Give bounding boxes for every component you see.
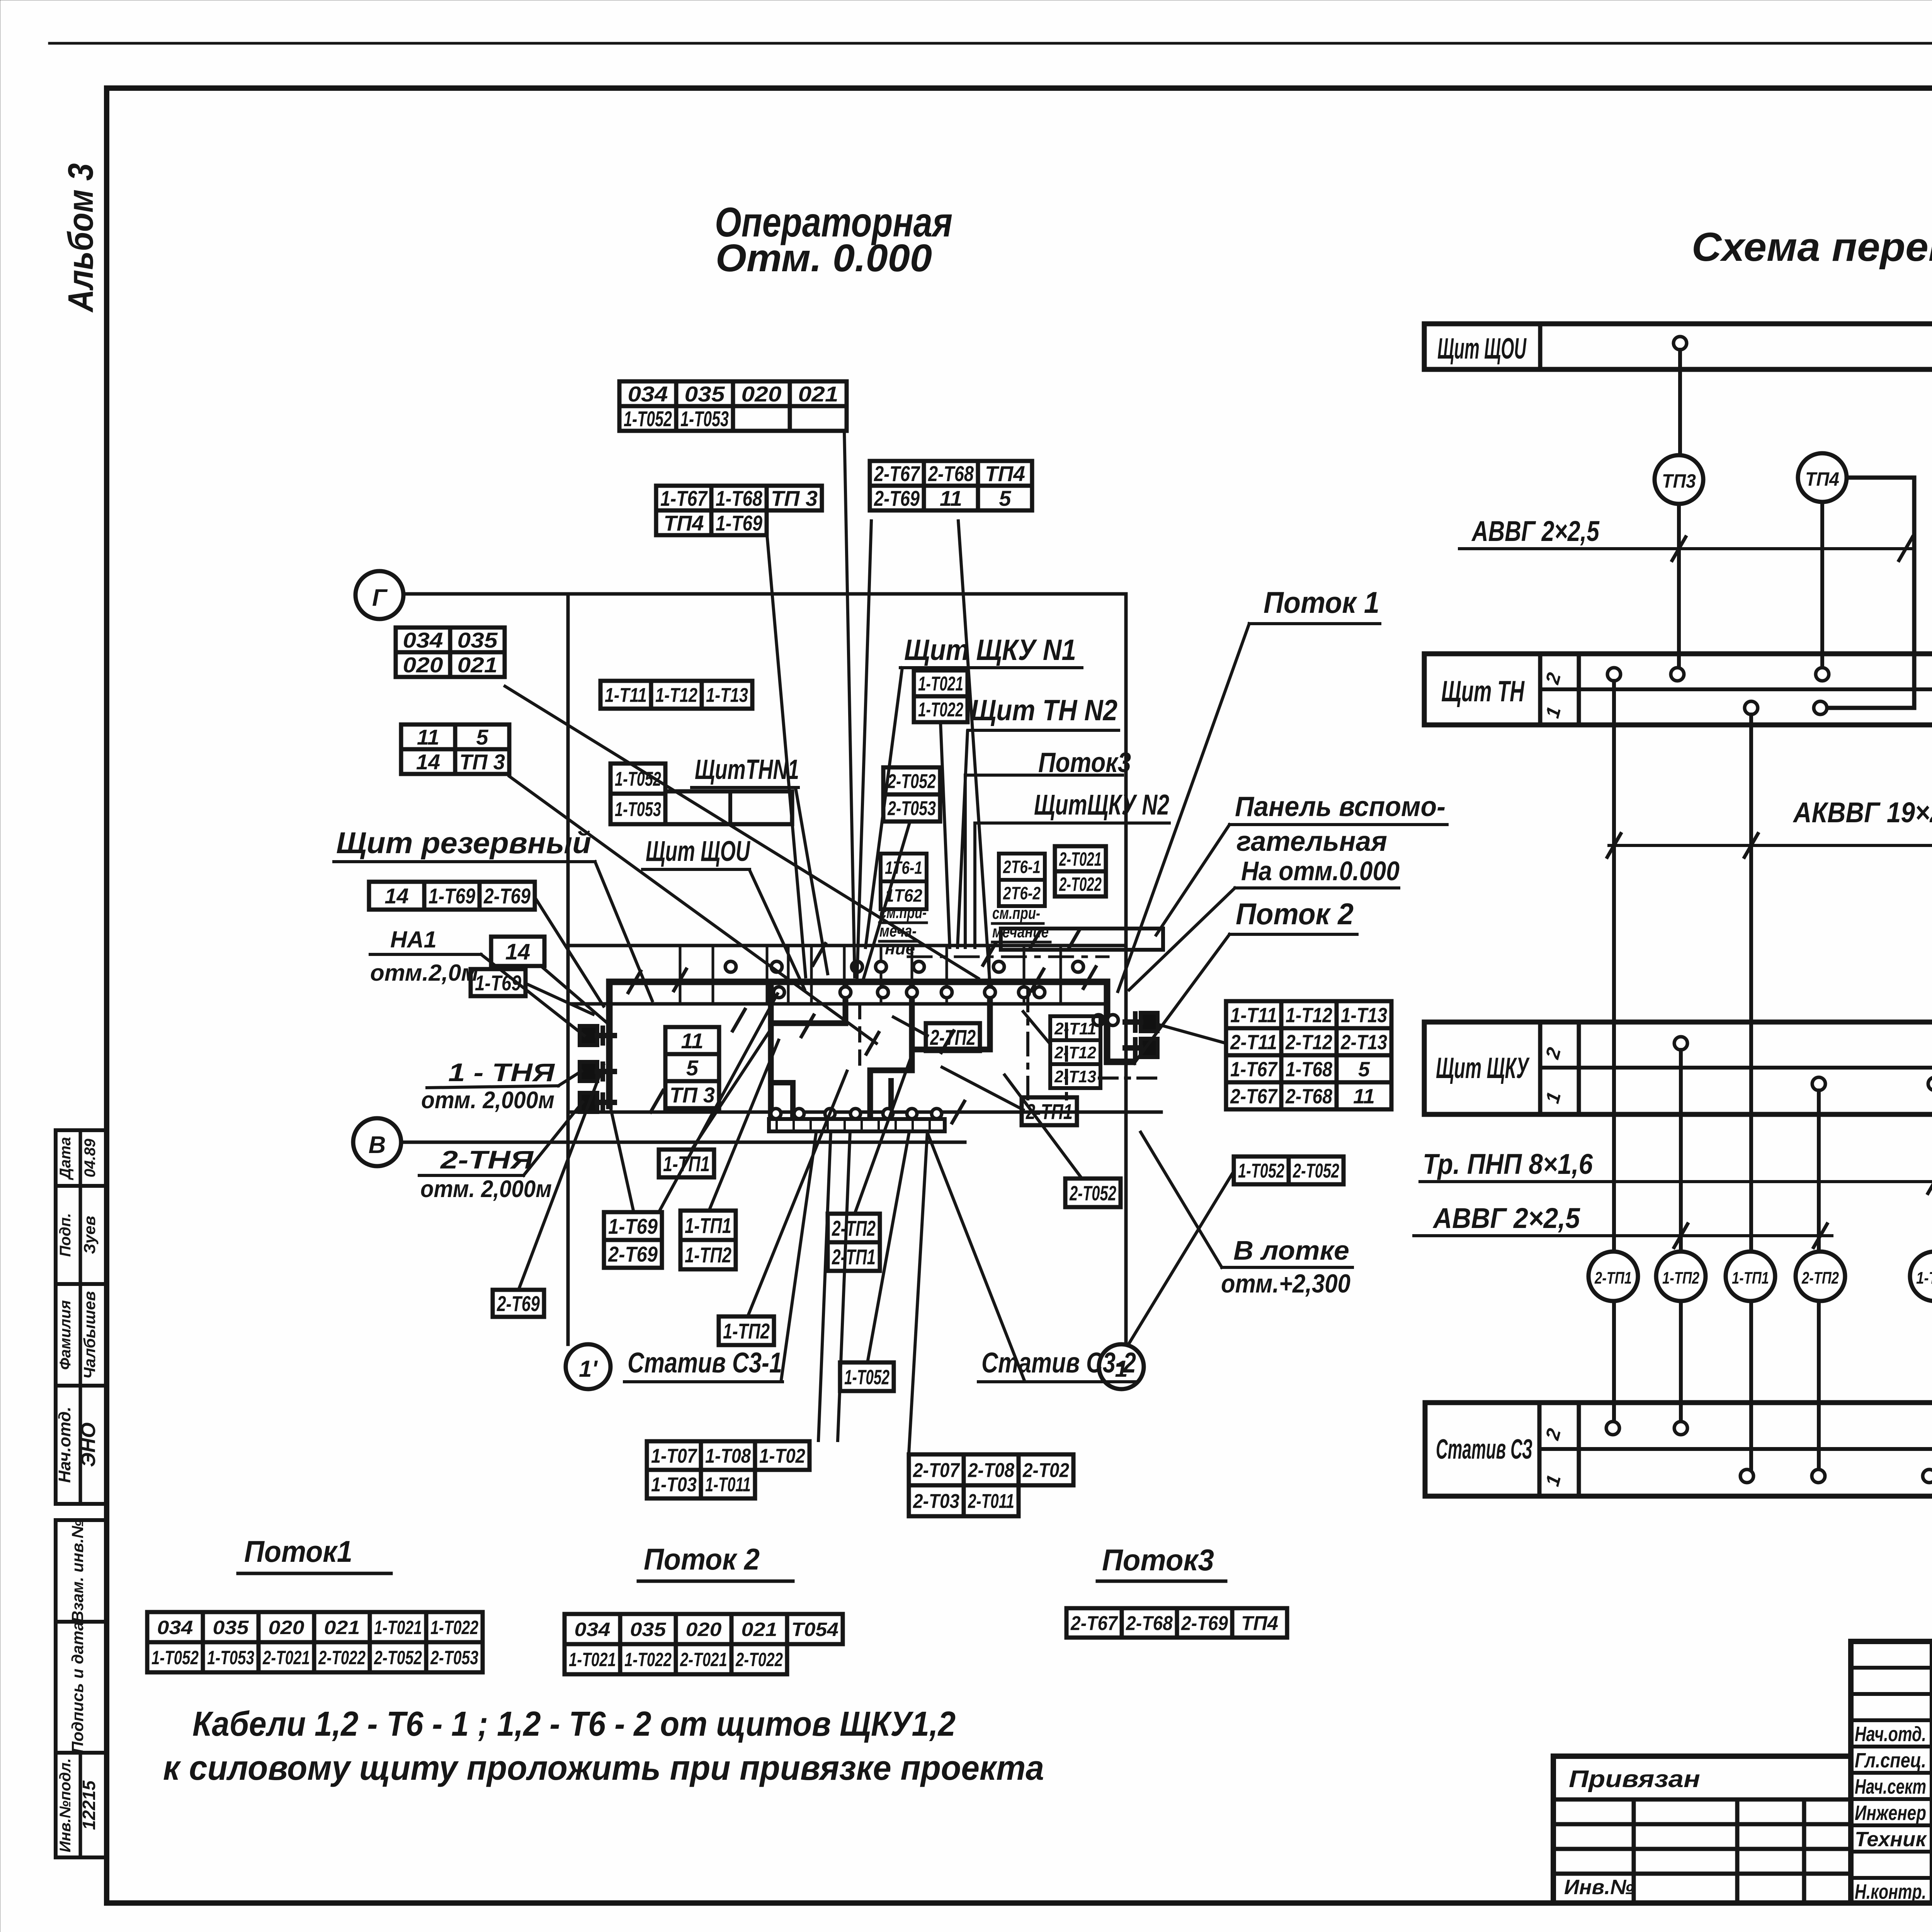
svg-text:гательная: гательная xyxy=(1236,826,1387,857)
left margin stamp: Nach otd ENO xyxy=(56,1386,107,1504)
panel bar Shchit SchOU xyxy=(1424,324,1932,369)
leader from 2-T67 table right xyxy=(958,521,990,985)
svg-text:отм. 2,000м: отм. 2,000м xyxy=(421,1087,554,1114)
leader Stativ1 up xyxy=(781,1133,816,1379)
svg-text:2-Т12: 2-Т12 xyxy=(1285,1031,1332,1054)
callout box 1-T69 upper xyxy=(471,969,526,996)
callout box 1-T052 lower xyxy=(840,1362,894,1391)
axis dash-dot along tray xyxy=(908,956,1108,958)
svg-text:034: 034 xyxy=(628,382,668,406)
svg-text:ЩитЩКУ N2: ЩитЩКУ N2 xyxy=(1034,789,1169,821)
svg-text:1-Т053: 1-Т053 xyxy=(615,798,661,821)
svg-text:034: 034 xyxy=(575,1619,611,1640)
svg-text:1-ТП1: 1-ТП1 xyxy=(1732,1269,1769,1287)
svg-text:1-Т67: 1-Т67 xyxy=(660,486,708,510)
leader 2-T11 table xyxy=(1023,1012,1050,1044)
room wall upper xyxy=(568,944,1126,947)
svg-text:Подп.: Подп. xyxy=(57,1213,74,1257)
terminal 1-ТП1 xyxy=(1726,1252,1775,1301)
svg-text:Статив С3-1: Статив С3-1 xyxy=(628,1347,782,1379)
callout table 2-T11 2-T12 2-T13 xyxy=(1050,1016,1100,1040)
dashed riser D1 xyxy=(858,1005,861,1070)
svg-text:Зуев: Зуев xyxy=(80,1216,99,1254)
svg-text:2-Т052: 2-Т052 xyxy=(1069,1182,1116,1205)
svg-text:Панель вспомо-: Панель вспомо- xyxy=(1235,791,1446,822)
svg-text:ТП4: ТП4 xyxy=(1805,468,1839,490)
svg-text:1-Т07: 1-Т07 xyxy=(1916,1269,1932,1287)
callout box 1-T052 / 1-T053 with extension xyxy=(611,764,665,794)
leader 1-T052 2-T052 box xyxy=(1128,1171,1234,1345)
svg-text:1-Т021: 1-Т021 xyxy=(918,673,963,695)
leader Potok1 xyxy=(1118,624,1249,992)
svg-text:отм. 2,000м: отм. 2,000м xyxy=(420,1176,552,1202)
svg-text:Альбом 3: Альбом 3 xyxy=(61,163,100,313)
svg-text:2-Т053: 2-Т053 xyxy=(887,798,936,820)
svg-text:1-Т052: 1-Т052 xyxy=(844,1366,889,1389)
svg-text:Кабели 1,2 - Т6 - 1 ; 1,2: Кабели 1,2 - Т6 - 1 ; 1,2 - Т6 - 2 от щи… xyxy=(192,1705,956,1743)
dash-dot riser D2 xyxy=(1026,989,1029,1099)
svg-text:ТП 3: ТП 3 xyxy=(670,1083,715,1107)
svg-text:2Т6-1: 2Т6-1 xyxy=(1003,857,1041,877)
cable table 034 035 / 020 021 xyxy=(396,628,505,652)
leader 2-TNYa xyxy=(524,1102,583,1175)
svg-text:1-Т67: 1-Т67 xyxy=(1230,1058,1278,1081)
svg-text:1-ТП2: 1-ТП2 xyxy=(685,1243,731,1267)
callout box 14 xyxy=(491,937,544,966)
svg-text:1-Т69: 1-Т69 xyxy=(716,511,762,535)
svg-text:021: 021 xyxy=(742,1619,777,1640)
leader 1-T052 box up xyxy=(867,1134,909,1362)
svg-text:2-Т052: 2-Т052 xyxy=(374,1647,422,1668)
svg-text:Щит ЩКУ N1: Щит ЩКУ N1 xyxy=(904,634,1076,667)
svg-text:11: 11 xyxy=(417,725,439,749)
svg-text:1-Т69: 1-Т69 xyxy=(608,1214,658,1238)
svg-text:Нач.отд.: Нач.отд. xyxy=(55,1406,74,1483)
svg-text:2-Т08: 2-Т08 xyxy=(968,1459,1014,1482)
svg-text:Фамилия: Фамилия xyxy=(57,1300,74,1370)
names columns grid xyxy=(1930,1641,1932,1903)
leader V lotke xyxy=(1141,1132,1222,1267)
leader Stativ2 up xyxy=(928,1134,1024,1379)
svg-text:5: 5 xyxy=(686,1056,699,1080)
nodes on TN bar row 1 xyxy=(1745,701,1758,714)
svg-text:ЭНО: ЭНО xyxy=(77,1422,100,1467)
svg-text:2-Т011: 2-Т011 xyxy=(968,1490,1014,1513)
nodes on TN bar row 2 xyxy=(1607,668,1621,681)
callout box 1-TP1 xyxy=(659,1150,714,1177)
svg-text:2-ТП1: 2-ТП1 xyxy=(1594,1269,1632,1287)
svg-text:1-Т68: 1-Т68 xyxy=(1286,1058,1332,1081)
svg-text:Отм. 0.000: Отм. 0.000 xyxy=(716,236,932,280)
relay TP4 xyxy=(1798,453,1847,502)
wire drop below stand 1 xyxy=(818,1131,831,1440)
leader Panel xyxy=(1156,825,1230,935)
svg-text:АВВГ 2×2,5: АВВГ 2×2,5 xyxy=(1432,1202,1581,1234)
nodes SchKU row1 xyxy=(1812,1077,1825,1090)
panel bar Stativ SZ xyxy=(1425,1403,1932,1496)
leader long from 2x2 table xyxy=(505,686,978,978)
table 1-T07 group xyxy=(647,1441,810,1470)
cable table 034 035 020 021 / 1-T052 1-T053 xyxy=(619,381,847,406)
svg-text:Инженер: Инженер xyxy=(1855,1801,1926,1825)
left margin stamp: Familia xyxy=(56,1284,107,1386)
leader Potok2 xyxy=(1134,934,1230,1063)
svg-text:04.89: 04.89 xyxy=(82,1138,99,1177)
leader 14/1-T69/2-T69 strip xyxy=(535,897,604,1006)
svg-text:1-Т011: 1-Т011 xyxy=(705,1474,751,1496)
wire TP4 right loop to row1 xyxy=(1828,478,1914,708)
leader 2-T052 box down xyxy=(862,821,910,982)
svg-text:2-ТНЯ: 2-ТНЯ xyxy=(440,1145,534,1174)
svg-text:2-Т052: 2-Т052 xyxy=(1293,1160,1339,1182)
title block main frame xyxy=(1851,1641,1932,1903)
svg-text:Щит ЩОU: Щит ЩОU xyxy=(646,835,750,867)
svg-text:Щит ЩОU: Щит ЩОU xyxy=(1437,332,1527,365)
svg-text:2-Т69: 2-Т69 xyxy=(497,1291,540,1316)
svg-text:2-Т052: 2-Т052 xyxy=(887,770,936,793)
svg-text:2-Т67: 2-Т67 xyxy=(874,461,920,486)
svg-text:ТП4: ТП4 xyxy=(664,511,704,535)
svg-text:отм.2,0м: отм.2,0м xyxy=(370,960,478,986)
wires from SchKU down to Stativ xyxy=(1679,1050,1683,1425)
svg-text:020: 020 xyxy=(686,1619,722,1640)
callout box 2-TP1 mid xyxy=(1022,1097,1077,1125)
callout box 2-T052 xyxy=(1065,1179,1121,1207)
left margin stamp: Inv nom podl xyxy=(56,1753,107,1857)
tray drop nodes right pair xyxy=(1093,1015,1104,1026)
svg-text:ТП 3: ТП 3 xyxy=(771,486,818,510)
grid line G horizontal xyxy=(403,592,1126,596)
wall bushings left xyxy=(580,1026,597,1045)
grid bubble 1 xyxy=(1099,1344,1144,1389)
callout box 1-TP1 / 1-TP2 xyxy=(680,1211,736,1240)
callout table 11 / 5 / TP3 center xyxy=(665,1027,719,1054)
node on SchOU bar xyxy=(1673,337,1687,350)
svg-text:12215: 12215 xyxy=(79,1780,99,1830)
svg-text:2-Т11: 2-Т11 xyxy=(1054,1019,1096,1038)
svg-text:2-Т13: 2-Т13 xyxy=(1054,1067,1096,1086)
svg-text:1-Т68: 1-Т68 xyxy=(716,486,763,510)
room wall lower shelf xyxy=(568,1111,1161,1114)
svg-text:11: 11 xyxy=(940,486,962,510)
grid bubble 1prime xyxy=(566,1344,611,1389)
cable table 2-T67 2-T68 TP4 / 2-T69 11 5 xyxy=(870,461,1032,486)
grid bubble G xyxy=(355,571,403,619)
svg-text:2-Т67: 2-Т67 xyxy=(1070,1612,1118,1635)
svg-text:034: 034 xyxy=(157,1617,193,1638)
svg-text:2-Т07: 2-Т07 xyxy=(913,1459,960,1482)
cable tray main thick run xyxy=(609,982,1133,1106)
svg-text:1': 1' xyxy=(579,1356,598,1382)
table 2-T07 group xyxy=(909,1454,1073,1485)
svg-text:021: 021 xyxy=(324,1617,360,1638)
svg-text:ТП3: ТП3 xyxy=(1662,470,1696,492)
svg-text:1-Т12: 1-Т12 xyxy=(1286,1003,1332,1027)
svg-text:Чалбышев: Чалбышев xyxy=(80,1291,99,1379)
terminal 2-ТП2 xyxy=(1796,1252,1845,1301)
svg-text:2-ТП2: 2-ТП2 xyxy=(1801,1269,1839,1287)
tray riser A hook xyxy=(771,986,845,1023)
left margin stamp: Data 04.89 xyxy=(56,1130,107,1186)
equipment stand rail xyxy=(769,1119,945,1131)
svg-text:020: 020 xyxy=(742,382,782,406)
svg-text:5: 5 xyxy=(476,725,488,749)
cable crossing ticks on tray xyxy=(628,971,641,992)
svg-text:Подпись и дата: Подпись и дата xyxy=(68,1622,87,1753)
cable table 1-T67 1-T68 TP3 / TP4 1-T69 xyxy=(656,486,822,510)
svg-text:14: 14 xyxy=(505,939,531,964)
svg-text:2-Т13: 2-Т13 xyxy=(1340,1031,1387,1054)
panel dividers along wall xyxy=(679,946,682,1004)
callout box 2-TP2 / 2-TP1 xyxy=(828,1214,880,1242)
svg-text:ние: ние xyxy=(885,939,915,958)
svg-text:Дата: Дата xyxy=(57,1137,74,1180)
svg-text:Нач.сект: Нач.сект xyxy=(1855,1775,1926,1798)
nodes Stativ row1 xyxy=(1740,1469,1753,1483)
svg-text:1-Т022: 1-Т022 xyxy=(624,1649,672,1670)
wire SchOU to TP3 xyxy=(1678,350,1682,455)
wire TP4 down to Shchit TN row2 xyxy=(1820,502,1824,675)
svg-text:Поток3: Поток3 xyxy=(1102,1543,1214,1577)
panel bar Shchit TN xyxy=(1424,654,1932,725)
svg-text:2-Т11: 2-Т11 xyxy=(1230,1031,1277,1054)
leader 2-TP1 box xyxy=(942,1067,1023,1110)
svg-text:2-ТП2: 2-ТП2 xyxy=(930,1025,976,1049)
svg-text:2-Т053: 2-Т053 xyxy=(430,1647,478,1668)
leader rezervny xyxy=(595,862,652,1001)
svg-text:2-ТП1: 2-ТП1 xyxy=(832,1245,876,1269)
svg-text:1-ТП1: 1-ТП1 xyxy=(685,1213,731,1238)
svg-text:1-Т021: 1-Т021 xyxy=(569,1649,616,1670)
svg-text:мечание: мечание xyxy=(992,922,1049,941)
svg-text:1-Т08: 1-Т08 xyxy=(705,1445,751,1468)
dashed riser D3 xyxy=(1065,1024,1068,1099)
leader 1-T021 box to tray xyxy=(940,722,950,947)
svg-text:2Т6-2: 2Т6-2 xyxy=(1003,883,1041,903)
svg-text:11: 11 xyxy=(681,1029,703,1053)
svg-text:ТП4: ТП4 xyxy=(985,461,1025,486)
cable table 14 1-T69 2-T69 xyxy=(369,882,535,910)
svg-text:2-Т67: 2-Т67 xyxy=(1230,1085,1278,1108)
room wall inner ledge xyxy=(572,1002,1108,1006)
svg-text:АКВВГ 19×2,5: АКВВГ 19×2,5 xyxy=(1793,796,1932,828)
left margin stamp: Vzam inv xyxy=(56,1520,107,1622)
leader SchKU N1 to tray xyxy=(866,668,902,947)
callout box 2-T69 lower xyxy=(493,1290,544,1317)
table Potok1 xyxy=(147,1612,483,1642)
svg-text:Схема перемычек: Схема перемычек xyxy=(1692,224,1932,270)
callout box 2-T021 / 2-T022 xyxy=(1055,846,1106,871)
tray riser A2 xyxy=(771,1083,793,1114)
relay TP3 xyxy=(1655,455,1703,504)
grid line 1 vertical xyxy=(1124,594,1128,1344)
svg-text:Статив СЗ: Статив СЗ xyxy=(1436,1434,1532,1465)
svg-text:021: 021 xyxy=(798,382,838,406)
grid line V horizontal xyxy=(401,1141,965,1144)
stand terminals xyxy=(771,1109,781,1119)
svg-text:ТП 3: ТП 3 xyxy=(459,750,505,774)
svg-text:ЩитТНN1: ЩитТНN1 xyxy=(695,754,799,785)
grid line 1prime vertical xyxy=(566,594,570,1344)
panel bar Shchit SchKU xyxy=(1424,1022,1932,1114)
svg-text:Щит ТН N2: Щит ТН N2 xyxy=(971,694,1117,727)
leader 1-T69/2-T69 up-left xyxy=(611,1107,634,1212)
svg-text:1-Т13: 1-Т13 xyxy=(706,684,748,707)
leader 1-TP1 box up xyxy=(692,1029,771,1150)
tray drop nodes lower row xyxy=(774,987,784,998)
svg-text:Поток1: Поток1 xyxy=(244,1534,352,1568)
svg-text:Взам. инв.№: Взам. инв.№ xyxy=(68,1520,87,1622)
svg-text:1-Т022: 1-Т022 xyxy=(430,1617,478,1638)
leader 1-TP2 box up xyxy=(748,1071,847,1316)
svg-text:1-Т69: 1-Т69 xyxy=(429,884,475,908)
tray riser B2 xyxy=(888,1081,894,1114)
leader from 11/5 table xyxy=(509,776,876,1043)
callout box 1-TP2 xyxy=(719,1316,774,1345)
svg-text:11: 11 xyxy=(1353,1085,1375,1108)
callout box 1-T021 / 1-T022 xyxy=(914,670,968,696)
svg-text:1-Т052: 1-Т052 xyxy=(624,406,672,431)
svg-text:Поток 2: Поток 2 xyxy=(1236,897,1354,931)
svg-text:Т054: Т054 xyxy=(791,1619,838,1640)
svg-text:2-Т68: 2-Т68 xyxy=(1126,1612,1173,1635)
leader from 1-T67 table xyxy=(767,535,806,977)
nodes SchKU row2 xyxy=(1674,1037,1687,1050)
svg-text:Гл.спец.: Гл.спец. xyxy=(1855,1749,1926,1772)
svg-text:1-Т12: 1-Т12 xyxy=(655,684,697,707)
callout box 2-T052 / 2-T053 xyxy=(883,767,940,794)
svg-text:1-ТП2: 1-ТП2 xyxy=(723,1319,770,1343)
terminal 2-ТП1 xyxy=(1588,1252,1638,1301)
leader 1-TNYa xyxy=(558,1071,582,1086)
privyazan sub table xyxy=(1553,1756,1851,1903)
terminal 1-ТП2 xyxy=(1656,1252,1706,1301)
svg-text:1-Т07: 1-Т07 xyxy=(651,1445,697,1468)
svg-text:1-ТП2: 1-ТП2 xyxy=(1662,1269,1699,1287)
svg-text:2-Т03: 2-Т03 xyxy=(913,1490,959,1513)
left margin stamp: Podpis i data xyxy=(56,1622,107,1753)
svg-text:021: 021 xyxy=(457,653,498,677)
leader 2-T052 box xyxy=(1005,1075,1082,1179)
svg-text:020: 020 xyxy=(403,653,443,677)
svg-text:отм.+2,300: отм.+2,300 xyxy=(1221,1269,1350,1298)
wire TP3 down to Shchit TN xyxy=(1677,504,1681,675)
leader box14 xyxy=(541,966,607,1023)
svg-text:14: 14 xyxy=(416,750,440,774)
tray riser B xyxy=(870,986,912,1114)
wire drop to 2-T07 table xyxy=(909,1131,927,1454)
leader ShchitTNN1 to tray xyxy=(796,790,828,974)
svg-text:1Т6-1: 1Т6-1 xyxy=(885,858,922,878)
svg-text:2-Т022: 2-Т022 xyxy=(1059,874,1102,895)
svg-text:Техник: Техник xyxy=(1855,1828,1927,1851)
svg-text:035: 035 xyxy=(213,1617,249,1638)
grid bubble V xyxy=(353,1118,401,1166)
svg-text:2-Т12: 2-Т12 xyxy=(1054,1043,1096,1062)
tray drop nodes upper row xyxy=(725,961,736,972)
wire TN row2 col 2-TP1 down xyxy=(1612,681,1616,1425)
svg-text:2-Т68: 2-Т68 xyxy=(928,461,974,486)
svg-text:1-Т052: 1-Т052 xyxy=(151,1647,199,1668)
svg-text:2-Т69: 2-Т69 xyxy=(1181,1612,1228,1635)
svg-text:НА1: НА1 xyxy=(390,927,437,952)
svg-text:2-Т022: 2-Т022 xyxy=(735,1649,783,1670)
leader TN N2 to tray xyxy=(957,731,968,947)
svg-text:14: 14 xyxy=(384,884,408,908)
svg-text:АВВГ 2×2,5: АВВГ 2×2,5 xyxy=(1471,515,1600,547)
table Potok3 xyxy=(1066,1608,1287,1638)
svg-text:035: 035 xyxy=(685,382,725,406)
svg-text:Статив С3-2: Статив С3-2 xyxy=(981,1347,1136,1379)
svg-text:Поток 1: Поток 1 xyxy=(1264,585,1379,619)
leader from table T1 xyxy=(844,430,855,977)
svg-text:2-Т69: 2-Т69 xyxy=(483,884,531,908)
table Potok2 xyxy=(565,1614,843,1644)
svg-text:Щит резервный: Щит резервный xyxy=(336,826,591,860)
svg-text:1-Т02: 1-Т02 xyxy=(759,1445,805,1468)
svg-text:1-Т022: 1-Т022 xyxy=(918,699,963,721)
leader from table T3 xyxy=(857,521,871,978)
svg-text:1-Т03: 1-Т03 xyxy=(651,1474,697,1496)
big table 1-T11 1-T12 1-T13 top xyxy=(600,681,752,709)
leader 2-T69 box up xyxy=(519,1065,604,1290)
callout box 1-T052 2-T052 pair xyxy=(1234,1156,1344,1184)
nodes Stativ row2 xyxy=(1606,1422,1619,1435)
svg-text:2-Т02: 2-Т02 xyxy=(1022,1459,1069,1482)
leader Na otm xyxy=(1129,888,1235,990)
svg-text:034: 034 xyxy=(403,628,443,652)
leader 2-TP2/2-TP1 box up xyxy=(855,1053,913,1214)
tray riser C xyxy=(918,986,990,1049)
leader big table to bushings xyxy=(1159,1025,1226,1043)
leader 1-T69/2-T69 up-right xyxy=(659,994,777,1212)
svg-text:1-Т053: 1-Т053 xyxy=(207,1647,254,1668)
svg-text:035: 035 xyxy=(630,1619,667,1640)
svg-text:В лотке: В лотке xyxy=(1233,1235,1349,1265)
svg-text:Щит ТН: Щит ТН xyxy=(1441,675,1525,708)
svg-text:2-Т021: 2-Т021 xyxy=(262,1647,310,1668)
leader 2-TP2 box xyxy=(893,1017,927,1036)
wire TN row1 down (1-TP1) xyxy=(1749,714,1753,1469)
svg-text:Инв.№подл.: Инв.№подл. xyxy=(57,1758,74,1852)
svg-text:к силовому щиту проложить: к силовому щиту проложить при привязке п… xyxy=(163,1749,1044,1787)
leader 1-T69 upper box xyxy=(526,983,593,1014)
cable table 11 5 / 14 TP3 xyxy=(401,724,509,749)
svg-text:5: 5 xyxy=(999,486,1011,510)
svg-text:2-Т69: 2-Т69 xyxy=(608,1242,658,1266)
wire drop below stand 2 xyxy=(838,1131,850,1440)
svg-text:2-Т68: 2-Т68 xyxy=(1285,1085,1332,1108)
svg-text:Н.контр.: Н.контр. xyxy=(1855,1880,1926,1903)
callout box 2-TP2 mid xyxy=(926,1023,980,1051)
leader SchOU to tray xyxy=(750,870,804,989)
note box 2T6-1 2T6-2 xyxy=(999,854,1045,880)
svg-text:Инв.№: Инв.№ xyxy=(1564,1876,1634,1899)
svg-text:1-Т13: 1-Т13 xyxy=(1341,1003,1387,1027)
svg-text:1-Т69: 1-Т69 xyxy=(475,971,521,995)
svg-text:1 - ТНЯ: 1 - ТНЯ xyxy=(448,1058,555,1087)
svg-text:Тр. ПНП 8×1,6: Тр. ПНП 8×1,6 xyxy=(1423,1148,1593,1180)
svg-text:2-ТП2: 2-ТП2 xyxy=(832,1216,876,1240)
svg-text:020: 020 xyxy=(269,1617,304,1638)
svg-text:Нач.отд.: Нач.отд. xyxy=(1855,1723,1926,1746)
svg-text:В: В xyxy=(369,1132,386,1158)
leader NA1 xyxy=(481,954,584,1036)
terminal 1-Т07 xyxy=(1910,1252,1932,1301)
leader 1-TP1/1-TP2 box xyxy=(709,1040,779,1211)
svg-text:см.при-: см.при- xyxy=(992,904,1040,923)
sheet outer border top xyxy=(49,42,1932,45)
